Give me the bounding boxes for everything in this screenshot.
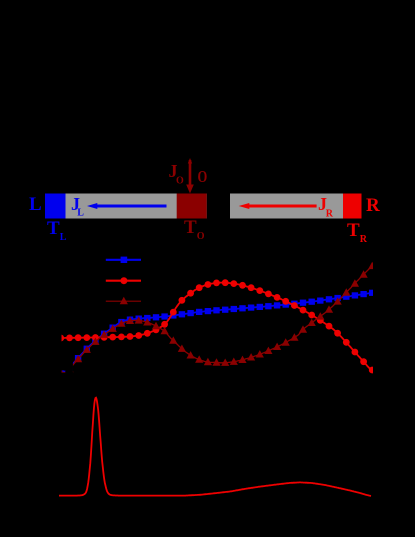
arrow J_L (blue, pointing left) — [87, 203, 167, 209]
left lead bar (gray) — [45, 194, 207, 219]
legend entry: dark red triangles line — [106, 297, 141, 304]
legend entry: blue squares line — [106, 257, 141, 263]
left reservoir block L (blue) — [45, 194, 66, 219]
curve: red spectral function (bottom plot) — [59, 398, 371, 496]
right lead bar (gray) — [230, 194, 362, 219]
right reservoir block R (red) — [343, 194, 362, 219]
curve: red circles (middle plot) — [57, 279, 375, 373]
axis spine cover (gap in curve start, spine drawn over data) — [65, 362, 73, 377]
svg-text:L: L — [77, 208, 84, 219]
svg-text:R: R — [326, 209, 334, 220]
curve: dark red triangles (middle plot) — [57, 262, 377, 376]
curve: blue squares (middle plot) — [58, 290, 376, 375]
svg-text:O: O — [176, 176, 184, 187]
spine covers at curve start — [58, 362, 66, 370]
svg-text:R: R — [366, 195, 380, 216]
legend entry: red circles line — [106, 277, 141, 284]
arrow J_R (red, pointing left) — [239, 203, 317, 209]
svg-text:O: O — [198, 167, 208, 186]
svg-text:L: L — [29, 194, 42, 215]
arrow J_O (dark red, pointing down into center block) — [186, 158, 194, 194]
center reservoir block O (dark red) — [177, 194, 207, 219]
